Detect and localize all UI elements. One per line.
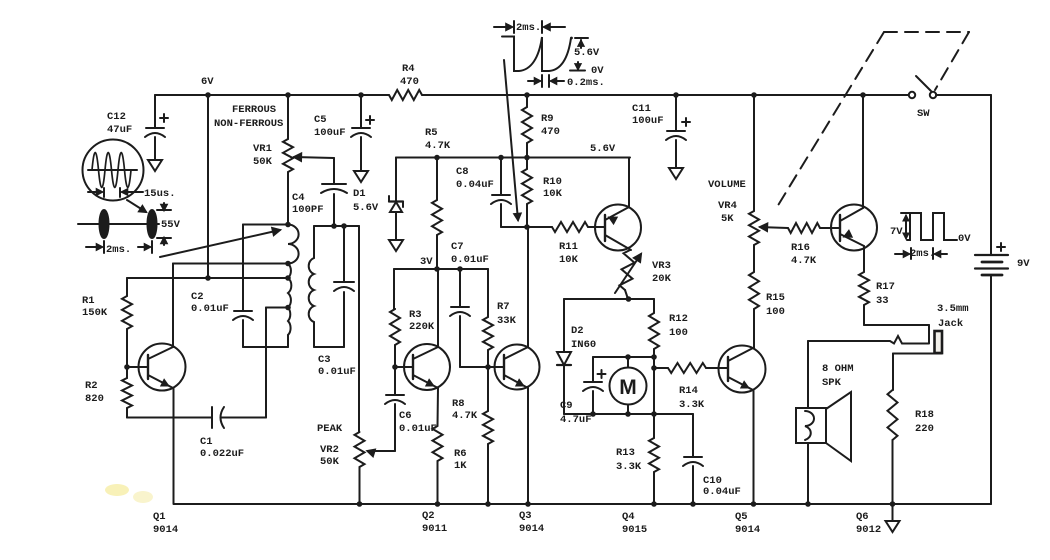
inductor L1 secondary coil: [309, 226, 314, 347]
svg-text:PEAK: PEAK: [317, 423, 343, 435]
wire Q3 emitter: [525, 388, 531, 507]
potentiometer VR2: [317, 423, 375, 507]
svg-text:R8: R8: [452, 398, 465, 410]
wire secondary bottom: [314, 346, 344, 348]
waveform inset 15us ringing circle: [83, 140, 144, 201]
svg-text:0.01uF: 0.01uF: [318, 366, 356, 378]
wire 6V to tap: [127, 275, 288, 281]
wire coil bottom: [243, 346, 288, 348]
svg-text:C12: C12: [107, 111, 126, 123]
dashed line right: [935, 32, 969, 90]
svg-text:VR4: VR4: [718, 200, 737, 212]
motor M1: [610, 368, 647, 415]
rheostat VR3: [615, 250, 672, 299]
node 6V label: [201, 76, 214, 88]
svg-text:5.6V: 5.6V: [574, 47, 600, 59]
label NON-FERROUS: [214, 118, 283, 130]
resistor R8: [452, 364, 493, 507]
svg-text:0.2ms.: 0.2ms.: [567, 77, 605, 89]
label VOLUME: [708, 179, 746, 191]
capacitor C4: [292, 184, 347, 226]
ground (C12): [148, 160, 162, 171]
speaker SPK: [796, 363, 854, 461]
resistor R15: [749, 272, 785, 348]
resistor R3: [390, 269, 435, 367]
svg-text:Jack: Jack: [938, 318, 963, 330]
svg-text:47uF: 47uF: [107, 124, 132, 136]
svg-text:R18: R18: [915, 409, 934, 421]
label Q3 9014: [519, 510, 544, 535]
dashed line left: [777, 32, 884, 207]
svg-text:R11: R11: [559, 241, 578, 253]
svg-text:D2: D2: [571, 325, 584, 337]
capacitor C12: [107, 95, 168, 160]
wire motor loop top: [564, 296, 654, 302]
label Q4 9015: [622, 511, 647, 536]
resistor R4: [389, 63, 422, 100]
label Q1 9014: [153, 511, 178, 536]
svg-text:C1: C1: [200, 436, 213, 448]
wire 3V line: [394, 256, 488, 272]
svg-text:C4: C4: [292, 192, 305, 204]
svg-text:3V: 3V: [420, 256, 433, 268]
inductor L1 primary coil: [288, 225, 299, 348]
wire Q5 emitter: [751, 390, 757, 507]
svg-text:IN60: IN60: [571, 339, 596, 351]
svg-text:Q2: Q2: [422, 510, 435, 522]
svg-text:6V: 6V: [201, 76, 214, 88]
svg-text:R15: R15: [766, 292, 785, 304]
svg-text:R2: R2: [85, 380, 98, 392]
svg-text:33K: 33K: [497, 315, 517, 327]
svg-text:R16: R16: [791, 242, 810, 254]
capacitor C2: [191, 225, 253, 348]
wire VR2 feed: [358, 226, 360, 432]
node coil tap 6V: [285, 275, 291, 281]
wire 5.6V line: [396, 143, 630, 158]
svg-text:0V: 0V: [958, 233, 971, 245]
svg-text:50K: 50K: [320, 456, 340, 468]
svg-text:M: M: [619, 376, 637, 399]
zener diode D1: [353, 158, 403, 241]
arrow 55V to coil: [160, 228, 280, 257]
battery BT1: [975, 243, 1030, 275]
svg-text:33: 33: [876, 295, 889, 307]
svg-text:10K: 10K: [559, 254, 579, 266]
svg-text:20K: 20K: [652, 273, 672, 285]
wire R17 to jack: [864, 325, 929, 343]
label Q2 9011: [422, 510, 447, 535]
dimension 15us: [88, 188, 176, 200]
dimension 0.2ms: [528, 75, 605, 89]
svg-text:0V: 0V: [591, 65, 604, 77]
svg-text:5.6V: 5.6V: [353, 202, 379, 214]
resistor R5: [425, 127, 451, 269]
node coil tap collector: [285, 261, 291, 267]
dimension 55V: [157, 203, 181, 245]
svg-text:R4: R4: [402, 63, 415, 75]
svg-text:100: 100: [766, 306, 785, 318]
svg-text:R9: R9: [541, 113, 554, 125]
svg-text:3.3K: 3.3K: [616, 461, 642, 473]
wire VR4 feed: [751, 92, 757, 211]
svg-text:R12: R12: [669, 313, 688, 325]
svg-text:SPK: SPK: [822, 377, 842, 389]
svg-text:R10: R10: [543, 176, 562, 188]
wire Q3 collector: [527, 227, 529, 347]
svg-text:0.022uF: 0.022uF: [200, 448, 244, 460]
svg-text:9V: 9V: [1017, 258, 1030, 270]
wire C1 to coil tap: [266, 308, 288, 418]
svg-text:Q3: Q3: [519, 510, 532, 522]
svg-text:9011: 9011: [422, 523, 447, 535]
svg-text:4.7K: 4.7K: [425, 140, 451, 152]
node coil tap C1: [285, 305, 291, 311]
node coil top: [285, 222, 291, 228]
resistor R10: [522, 158, 563, 230]
svg-text:9014: 9014: [735, 524, 760, 536]
svg-text:Q6: Q6: [856, 511, 869, 523]
waveform 55V spikes: [78, 210, 159, 238]
svg-text:VR3: VR3: [652, 260, 671, 272]
transistor Q1: [127, 344, 186, 391]
wire motor top: [593, 354, 654, 367]
jack J1: [935, 303, 969, 353]
resistor R12: [649, 299, 688, 414]
label FERROUS: [232, 104, 276, 116]
svg-text:SW: SW: [917, 108, 930, 120]
svg-text:VOLUME: VOLUME: [708, 179, 746, 191]
svg-text:8 OHM: 8 OHM: [822, 363, 854, 375]
resistor R7: [483, 269, 517, 367]
ground (D1): [389, 240, 403, 251]
resistor R13: [616, 414, 659, 507]
svg-text:3.3K: 3.3K: [679, 399, 705, 411]
dimension 2ms (spikes): [86, 241, 152, 256]
svg-text:10K: 10K: [543, 188, 563, 200]
svg-text:1K: 1K: [454, 460, 467, 472]
svg-text:R1: R1: [82, 295, 95, 307]
svg-text:0.01uF: 0.01uF: [451, 254, 489, 266]
transistor Q2: [395, 344, 450, 390]
svg-text:0.04uF: 0.04uF: [456, 179, 494, 191]
waveform square wave: [890, 213, 971, 245]
wire battery to bottom rail: [990, 275, 992, 504]
svg-text:FERROUS: FERROUS: [232, 104, 276, 116]
label Q5 9014: [735, 511, 760, 536]
capacitor C1: [127, 407, 266, 460]
potentiometer VR4: [718, 200, 788, 272]
svg-text:C5: C5: [314, 114, 327, 126]
svg-text:9015: 9015: [622, 524, 647, 536]
svg-text:55V: 55V: [161, 219, 181, 231]
wire Q2 collector: [437, 269, 439, 347]
svg-text:220K: 220K: [409, 321, 435, 333]
resistor R6: [433, 388, 468, 507]
label Q6 9012: [856, 511, 881, 536]
capacitor C8: [456, 155, 528, 227]
svg-text:C3: C3: [318, 354, 331, 366]
svg-text:C11: C11: [632, 103, 651, 115]
wire speaker feed: [805, 341, 811, 507]
svg-text:9012: 9012: [856, 524, 881, 536]
dimension 5.6V (sawtooth): [574, 38, 600, 59]
dashed line horizontal: [884, 31, 969, 33]
capacitor C3: [318, 223, 356, 378]
svg-text:4.7K: 4.7K: [791, 255, 817, 267]
svg-text:0.04uF: 0.04uF: [703, 486, 741, 498]
svg-text:C8: C8: [456, 166, 469, 178]
svg-text:470: 470: [400, 76, 419, 88]
resistor R17: [859, 246, 895, 325]
svg-text:Q4: Q4: [622, 511, 635, 523]
svg-text:C7: C7: [451, 241, 464, 253]
arrow probe to R10 junction: [504, 60, 521, 220]
svg-text:NON-FERROUS: NON-FERROUS: [214, 118, 283, 130]
transistor Q5: [719, 346, 766, 393]
wire jack sleeve: [893, 354, 942, 391]
svg-text:2ms.: 2ms.: [910, 248, 935, 260]
resistor R16: [788, 223, 840, 267]
resistor R14: [654, 363, 728, 411]
node C4 junction: [331, 223, 337, 229]
svg-text:15us.: 15us.: [144, 188, 176, 200]
svg-text:150K: 150K: [82, 307, 108, 319]
resistor R1: [82, 278, 132, 367]
resistor R2: [85, 364, 132, 417]
svg-text:100uF: 100uF: [314, 127, 346, 139]
svg-text:R13: R13: [616, 447, 635, 459]
wire Q4 emitter to 5.6V: [628, 158, 630, 208]
svg-text:3.5mm: 3.5mm: [937, 303, 969, 315]
smudge: [105, 484, 153, 503]
svg-text:9014: 9014: [519, 523, 544, 535]
svg-text:470: 470: [541, 126, 560, 138]
svg-text:VR2: VR2: [320, 444, 339, 456]
ground (R18): [886, 501, 900, 532]
capacitor C7: [450, 241, 489, 367]
transistor Q3: [488, 345, 540, 390]
svg-text:100PF: 100PF: [292, 204, 324, 216]
svg-text:100uF: 100uF: [632, 115, 664, 127]
wire C2 top: [243, 224, 288, 226]
svg-text:R17: R17: [876, 281, 895, 293]
svg-text:4.7uF: 4.7uF: [560, 414, 592, 426]
arrow inset to spike: [127, 200, 146, 212]
svg-text:C6: C6: [399, 410, 412, 422]
svg-text:50K: 50K: [253, 156, 273, 168]
wire secondary top: [314, 225, 359, 227]
resistor R9: [522, 92, 560, 160]
svg-text:Q5: Q5: [735, 511, 748, 523]
svg-text:5K: 5K: [721, 213, 734, 225]
wire speaker line: [808, 336, 929, 344]
svg-text:Q1: Q1: [153, 511, 166, 523]
dimension 2ms (square): [895, 248, 947, 260]
wire bottom rail: [174, 503, 991, 505]
wire 6V feed: [205, 92, 211, 278]
resistor R11: [528, 222, 605, 266]
capacitor C6: [368, 364, 437, 451]
diode D2: [557, 299, 596, 414]
svg-text:R7: R7: [497, 301, 510, 313]
svg-text:C9: C9: [560, 400, 573, 412]
svg-text:0.01uF: 0.01uF: [191, 303, 229, 315]
svg-text:4.7K: 4.7K: [452, 410, 478, 422]
svg-text:820: 820: [85, 393, 104, 405]
svg-text:9014: 9014: [153, 524, 178, 536]
svg-text:2ms.: 2ms.: [516, 22, 541, 34]
wire top 6V rail: [155, 94, 909, 96]
svg-text:VR1: VR1: [253, 143, 272, 155]
svg-text:C2: C2: [191, 291, 204, 303]
wire rail to battery: [936, 95, 991, 255]
ground (C5): [354, 171, 368, 182]
svg-text:R14: R14: [679, 385, 698, 397]
svg-text:5.6V: 5.6V: [590, 143, 616, 155]
svg-text:220: 220: [915, 423, 934, 435]
dimension 0V (sawtooth): [570, 62, 604, 77]
svg-text:R6: R6: [454, 448, 467, 460]
wire motor loop bottom: [564, 411, 693, 417]
svg-text:7V: 7V: [890, 226, 903, 238]
svg-text:2ms.: 2ms.: [106, 244, 131, 256]
resistor R18: [888, 390, 934, 504]
dimension 2ms (sawtooth): [494, 21, 565, 34]
transistor Q6: [831, 205, 877, 251]
switch SW: [909, 76, 936, 120]
svg-text:R3: R3: [409, 309, 422, 321]
wire Q1 collector to tap: [173, 264, 288, 348]
potentiometer VR1: [253, 92, 334, 224]
capacitor C10: [683, 414, 741, 507]
wire Q6 collector: [860, 92, 866, 208]
svg-text:D1: D1: [353, 188, 366, 200]
wire Q1 emitter: [173, 388, 175, 504]
ground (C11): [669, 168, 683, 179]
svg-text:100: 100: [669, 327, 688, 339]
transistor Q4: [595, 205, 641, 251]
capacitor C11: [632, 92, 690, 168]
capacitor C9: [560, 357, 606, 426]
svg-text:R5: R5: [425, 127, 438, 139]
waveform sawtooth: [502, 37, 573, 72]
capacitor C5: [314, 92, 374, 171]
